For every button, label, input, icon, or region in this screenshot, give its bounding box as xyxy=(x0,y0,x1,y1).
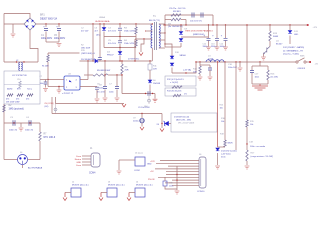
wire J2 pin xyxy=(65,192,71,194)
svg-text:10R: 10R xyxy=(193,72,197,74)
wire C4b bottom xyxy=(119,44,121,48)
wire D9 bottom xyxy=(180,43,182,47)
capacitor C17 xyxy=(250,71,254,73)
svg-text:C9 47n - 1kV 5%: C9 47n - 1kV 5% xyxy=(169,8,186,10)
svg-text:(+5V 2A): (+5V 2A) xyxy=(183,69,191,72)
svg-text:10R: 10R xyxy=(153,69,157,71)
wire C2b drop xyxy=(92,24,94,61)
svg-text:100n X2: 100n X2 xyxy=(9,130,18,132)
resistor R10 xyxy=(171,18,181,20)
marker test point xyxy=(54,108,57,111)
svg-text:MOLEX (disco d.): MOLEX (disco d.) xyxy=(136,185,153,187)
wire Q1 emitter xyxy=(263,54,265,57)
wire stub C1 xyxy=(45,24,47,27)
svg-text:150k 1/2W: 150k 1/2W xyxy=(124,31,135,33)
svg-text:+12V: +12V xyxy=(313,27,318,29)
wire down D2 xyxy=(246,127,248,150)
svg-text:(+5V listo): (+5V listo) xyxy=(221,153,231,156)
inductor L3 xyxy=(206,60,224,62)
resistor U1 internal xyxy=(19,81,21,88)
svg-text:20R: 20R xyxy=(125,70,129,72)
wire R5 to node xyxy=(108,74,122,76)
wire C6 stub xyxy=(104,75,106,86)
svg-text:(1k 1W): (1k 1W) xyxy=(271,77,279,79)
diode D14 LED xyxy=(216,148,220,151)
ground D14 xyxy=(215,166,220,169)
wire X cap line xyxy=(4,122,40,124)
junction xyxy=(45,23,46,24)
wire C6 bottom xyxy=(104,90,106,98)
wire C13 stub xyxy=(216,25,218,38)
wire D9 mid tap xyxy=(181,36,208,38)
resistor R12 xyxy=(172,86,182,88)
resistor Rb xyxy=(17,94,23,96)
box note feedback1 xyxy=(165,76,196,86)
svg-text:TRES DIODOS EN PARALELO: TRES DIODOS EN PARALELO xyxy=(185,30,214,33)
junction xyxy=(134,60,135,61)
wire AC line to bridge top xyxy=(4,14,30,19)
svg-text:GND: GND xyxy=(76,162,81,164)
wire left AC rail upper xyxy=(3,14,5,63)
wire R18 to LED xyxy=(218,146,225,148)
wire bridge negative return xyxy=(30,30,38,62)
diode D5 xyxy=(95,59,98,63)
wire secondary top xyxy=(159,23,165,25)
inductor L2 right xyxy=(21,63,22,71)
svg-text:R13 2k5 (V=5V): R13 2k5 (V=5V) xyxy=(167,91,182,93)
svg-text:47k: 47k xyxy=(6,99,9,101)
box U1 TOPSwitch xyxy=(4,71,40,104)
svg-text:47u 25V: 47u 25V xyxy=(97,92,105,94)
ground earth input xyxy=(11,34,16,37)
resistor R14 xyxy=(199,66,201,74)
wire R16 bottom xyxy=(267,80,269,84)
wire primary top xyxy=(140,23,152,25)
wire J1 pin1 xyxy=(82,155,91,157)
wire J6 pin2 xyxy=(156,162,199,164)
capacitor C14 xyxy=(224,38,228,40)
wire D4 bottom xyxy=(119,56,121,62)
svg-text:R12 (V-2.5)x1k/2.5: R12 (V-2.5)x1k/2.5 xyxy=(167,79,185,81)
capacitor C3b xyxy=(98,58,102,60)
junction xyxy=(16,61,17,62)
svg-text:PS-ON: PS-ON xyxy=(148,179,155,181)
wire snub5 bot xyxy=(199,74,201,76)
wire stub C4a xyxy=(119,24,121,28)
ground C7 xyxy=(115,98,120,101)
wire J5 pin1 xyxy=(119,159,135,161)
wire bias drop xyxy=(104,61,106,75)
junction xyxy=(208,24,209,25)
wire primary mid tap xyxy=(146,30,152,32)
svg-text:R1 2M2: R1 2M2 xyxy=(42,66,49,68)
wire drain xyxy=(151,48,153,61)
svg-text:CON2: CON2 xyxy=(134,170,141,172)
svg-text:= 1k (5V): = 1k (5V) xyxy=(170,82,179,84)
svg-text:R5 6R8 1/4W: R5 6R8 1/4W xyxy=(97,70,111,72)
wire opto left join xyxy=(47,80,49,87)
svg-text:VR = 1k5/V (24V): VR = 1k5/V (24V) xyxy=(178,123,195,125)
wire snubber loop left xyxy=(164,15,166,47)
wire J6 gnd bus xyxy=(176,166,178,190)
wire C7b stub xyxy=(45,80,47,82)
wire U1 divider xyxy=(4,84,40,86)
ground C13 xyxy=(215,47,220,50)
connector J4 AC inlet xyxy=(18,155,28,165)
junction xyxy=(99,23,100,24)
svg-text:0V (COM): 0V (COM) xyxy=(45,103,54,105)
diode D3 TVS xyxy=(102,28,106,31)
diode D9 xyxy=(179,32,183,35)
resistor R18 xyxy=(224,140,226,147)
wire J1 pin4 xyxy=(82,164,91,166)
switch SW1 xyxy=(296,58,306,63)
junction xyxy=(225,24,226,25)
wire opto out bottom xyxy=(80,86,97,88)
wire C12 bottom xyxy=(208,41,210,47)
resistor Rc xyxy=(27,94,33,96)
svg-text:BC547: BC547 xyxy=(276,44,283,46)
junction xyxy=(216,24,217,25)
wire R10 right xyxy=(181,19,186,21)
wire R6 bottom xyxy=(121,74,123,94)
ground C14 xyxy=(223,47,228,50)
junction xyxy=(246,24,247,25)
capacitor C20 xyxy=(208,68,212,70)
svg-text:10k: 10k xyxy=(220,107,223,109)
wire C13 gnd stub xyxy=(154,94,156,99)
wire primary return bus xyxy=(4,61,38,63)
junction xyxy=(152,93,153,94)
wire C1 bottom xyxy=(45,32,47,43)
wire J1 pin2 xyxy=(82,158,91,160)
svg-text:5mm: 5mm xyxy=(221,157,226,159)
junction xyxy=(185,72,186,73)
wire J6 pin9 xyxy=(165,182,199,184)
junction xyxy=(224,61,225,62)
wire left rail to inlet xyxy=(3,123,5,160)
junction xyxy=(212,24,213,25)
wire J6 pin4 xyxy=(155,168,199,170)
junction xyxy=(58,86,59,87)
junction xyxy=(259,61,260,62)
svg-text:10k: 10k xyxy=(221,121,224,123)
wire R16 top xyxy=(267,66,269,70)
junction xyxy=(87,60,88,61)
svg-text:1M0 (opcional): 1M0 (opcional) xyxy=(9,109,24,111)
wire R1 top xyxy=(47,53,49,55)
wire secondary tap1 xyxy=(159,32,165,34)
wire down D xyxy=(246,25,248,120)
wire test point stub xyxy=(148,96,150,104)
ground C12 xyxy=(206,47,211,50)
wire cluster bottom xyxy=(252,83,268,85)
capacitor C12 xyxy=(207,38,211,40)
svg-text:10n 1kV 5%: 10n 1kV 5% xyxy=(190,21,202,23)
junction xyxy=(149,60,150,61)
svg-text:J5 (aux): J5 (aux) xyxy=(135,153,143,155)
capacitor C10 xyxy=(192,13,194,18)
wire J3 gnd xyxy=(100,193,102,198)
svg-text:600Hz: 600Hz xyxy=(7,88,13,90)
svg-text:47n 1kV: 47n 1kV xyxy=(108,43,117,45)
wire stub R3 xyxy=(135,24,137,27)
wire R5 left xyxy=(84,74,93,76)
svg-text:680R: 680R xyxy=(228,143,233,145)
junction xyxy=(119,36,120,37)
svg-text:NTC 10D-9: NTC 10D-9 xyxy=(44,137,56,139)
wire bias to D5 line xyxy=(134,39,136,61)
wire D14 bottom xyxy=(217,153,219,165)
junction xyxy=(195,61,196,62)
ground arrow zener xyxy=(160,129,164,132)
wire down A xyxy=(217,62,219,147)
capacitor C19 xyxy=(163,181,167,186)
wire R4 bottom xyxy=(135,46,137,49)
junction xyxy=(119,23,120,24)
capacitor C3 xyxy=(13,120,15,126)
svg-text:47n 1kV: 47n 1kV xyxy=(108,31,117,33)
ground J6 xyxy=(175,191,180,194)
svg-text:(marcha - TL431): (marcha - TL431) xyxy=(283,53,299,56)
wire J6 pin1 xyxy=(160,160,199,162)
wire secondary bottom xyxy=(159,47,165,49)
resistor R7 NTC xyxy=(39,132,41,141)
capacitor C4a xyxy=(118,28,122,30)
wire D10 feed xyxy=(165,44,172,56)
wire bias line xyxy=(80,60,153,62)
wire earth stub xyxy=(12,24,14,33)
svg-text:CON4: CON4 xyxy=(89,173,96,175)
wire J6 pin10 xyxy=(172,185,199,187)
svg-text:C9 10n 250V: C9 10n 250V xyxy=(138,107,150,109)
svg-text:100u 400V: 100u 400V xyxy=(54,38,66,40)
wire C20 bot xyxy=(209,70,211,76)
junction xyxy=(164,43,165,44)
junction xyxy=(141,113,142,114)
svg-text:C10: C10 xyxy=(17,79,20,81)
resistor R2 xyxy=(3,105,5,112)
wire zener to box xyxy=(169,123,172,125)
svg-text:(0V): (0V) xyxy=(45,106,49,108)
connector J1 shell xyxy=(91,153,100,167)
wire C14 bottom xyxy=(225,41,227,47)
ground C16 xyxy=(238,68,243,71)
svg-text:(2M2 1/4W) x3: (2M2 1/4W) x3 xyxy=(81,53,95,55)
wire snubber bottom xyxy=(165,46,181,48)
wire C8 bottom xyxy=(96,90,98,98)
junction xyxy=(103,23,104,24)
wire inlet earth stub xyxy=(22,165,24,168)
ground C6 xyxy=(103,98,108,101)
wire D4 top xyxy=(119,48,121,52)
wire C17 top xyxy=(251,66,253,70)
svg-text:D12 (1N5817 - BAT85): D12 (1N5817 - BAT85) xyxy=(283,46,304,49)
svg-text:U1 TOP242YN: U1 TOP242YN xyxy=(12,75,27,77)
wire C19 top xyxy=(164,177,166,181)
wire J6 pin7 xyxy=(158,176,199,178)
junction xyxy=(164,24,165,25)
svg-text:D13 BZT03-C24: D13 BZT03-C24 xyxy=(174,117,190,119)
transistor Q1 xyxy=(264,46,271,53)
svg-text:MOLEX (disco d.): MOLEX (disco d.) xyxy=(72,185,89,187)
wire snubber top line xyxy=(165,14,213,16)
transformer T1 primary xyxy=(151,24,152,48)
wire J6 pin5 xyxy=(166,171,199,173)
wire bias tap xyxy=(135,38,152,40)
junction xyxy=(269,24,270,25)
wire C9y bottom xyxy=(141,123,143,127)
svg-text:CON10: CON10 xyxy=(197,191,205,193)
transformer T1 secondary xyxy=(159,24,160,48)
ground arrow bias xyxy=(139,53,143,56)
junction xyxy=(104,60,105,61)
wire snubber low xyxy=(104,47,136,49)
wire C13 bottom xyxy=(216,41,218,47)
junction xyxy=(13,122,14,123)
wire J4b gnd xyxy=(128,193,130,198)
svg-text:47k: 47k xyxy=(26,99,29,101)
ground C7b xyxy=(43,89,48,92)
resistor Ra xyxy=(7,94,13,96)
bridge rectifier BR1 xyxy=(24,18,36,30)
diode D13 zener xyxy=(163,121,168,126)
resistor R1 xyxy=(47,55,49,62)
wire bias gnd jog xyxy=(141,39,144,52)
svg-text:ON/OFF: ON/OFF xyxy=(298,68,306,70)
svg-text:= PC817 #2: = PC817 #2 xyxy=(62,93,74,95)
wire opto in top xyxy=(48,79,64,81)
svg-text:LA REGULADA: LA REGULADA xyxy=(95,20,110,23)
wire snubber right down xyxy=(212,15,214,25)
junction xyxy=(239,61,240,62)
wire HV+ rail xyxy=(36,23,140,25)
svg-text:3300u: 3300u xyxy=(211,46,216,48)
wire +5V rail xyxy=(196,61,296,63)
wire R10 down xyxy=(185,20,187,26)
resistor R3 xyxy=(135,27,137,34)
ground C13 xyxy=(153,99,158,102)
wire R1 net stub xyxy=(48,52,80,54)
svg-text:MOLEX (disco d.): MOLEX (disco d.) xyxy=(108,185,125,187)
capacitor C11 xyxy=(201,13,203,18)
wire C9y top xyxy=(141,114,143,119)
svg-text:Neutro: Neutro xyxy=(75,158,82,161)
wire +5V out xyxy=(306,61,310,63)
svg-text:2W 1/4W 1/4W: 2W 1/4W 1/4W xyxy=(6,102,20,104)
svg-text:GND: GND xyxy=(147,164,152,166)
wire C3b drop xyxy=(99,24,101,57)
wire D6 mid xyxy=(149,70,151,80)
resistor R13 xyxy=(269,31,271,41)
wire bridge AC left xyxy=(4,23,24,25)
junction xyxy=(145,93,146,94)
svg-text:D14 LED (verde): D14 LED (verde) xyxy=(221,150,237,153)
svg-text:LED: LED xyxy=(294,34,299,36)
ground X caps xyxy=(19,128,24,131)
ground J5 xyxy=(117,171,122,174)
wire D9 top xyxy=(180,25,182,31)
ground opto xyxy=(57,90,62,93)
svg-text:47k: 47k xyxy=(16,99,19,101)
wire R4 top xyxy=(135,37,137,41)
wire J6 pin6 xyxy=(166,174,199,176)
junction xyxy=(152,23,153,24)
svg-text:3300u: 3300u xyxy=(203,46,208,48)
diode D11 LED xyxy=(288,31,292,34)
pin marker xyxy=(144,30,147,32)
wire Q1 collector xyxy=(269,41,271,46)
wire C20 link xyxy=(200,64,210,66)
junction xyxy=(92,23,93,24)
ground cluster xyxy=(252,84,268,90)
resistor R15b xyxy=(246,120,248,127)
wire down C xyxy=(235,62,237,150)
resistor R16 xyxy=(267,70,269,80)
wire snub5 stub xyxy=(199,62,201,66)
junction xyxy=(104,74,105,75)
wire inlet right xyxy=(28,159,40,161)
svg-text:LINEA: LINEA xyxy=(99,16,105,19)
diode D10a xyxy=(170,56,174,59)
junction xyxy=(23,61,24,62)
wire stub D3 xyxy=(103,24,105,28)
junction xyxy=(199,61,200,62)
wire +12V rail xyxy=(163,24,308,26)
wire D10 to +5 rail xyxy=(172,62,196,73)
wire C5 bottom xyxy=(58,32,60,43)
ground J3 arrow xyxy=(99,198,103,201)
connector J5 xyxy=(135,157,145,166)
wire D6 bottom xyxy=(149,85,151,94)
wire R13 stub xyxy=(269,25,271,31)
capacitor C13 xyxy=(215,38,219,40)
wire R17 bottom xyxy=(246,161,248,165)
wire snubber mid xyxy=(104,36,136,38)
wire opto to bias xyxy=(87,61,89,80)
capacitor C1 xyxy=(44,29,48,31)
svg-text:1N4148: 1N4148 xyxy=(153,83,161,85)
junction xyxy=(92,60,93,61)
ground primary bulk xyxy=(57,44,62,47)
ground J4b arrow xyxy=(127,198,131,201)
wire J5 gnd xyxy=(118,160,120,170)
wire down B xyxy=(224,62,226,140)
junction xyxy=(116,74,117,75)
junction xyxy=(176,179,177,180)
wire J6 pin8 xyxy=(172,179,199,181)
wire C19 to gnd xyxy=(165,186,177,189)
wire cluster stub xyxy=(259,62,261,66)
wire R6 top xyxy=(121,61,123,64)
wire D11 bottom xyxy=(289,36,291,45)
connector J2 xyxy=(71,188,81,197)
connector J3 xyxy=(107,188,117,197)
resistor R17 xyxy=(246,150,248,161)
resistor R5 xyxy=(93,74,108,76)
svg-text:EE-25 (T1): EE-25 (T1) xyxy=(149,20,160,22)
wire aux gnd line xyxy=(56,103,125,105)
wire C17 bottom xyxy=(251,73,253,84)
wire J1 pin3 xyxy=(82,161,91,163)
ground C20 xyxy=(208,77,213,80)
wire gnd stub X xyxy=(20,123,22,127)
svg-text:DB207 600V 2A: DB207 600V 2A xyxy=(40,18,58,21)
wire C7b bottom xyxy=(45,85,47,88)
ground arrow C9y xyxy=(140,127,144,130)
junction xyxy=(121,74,122,75)
junction xyxy=(29,122,30,123)
